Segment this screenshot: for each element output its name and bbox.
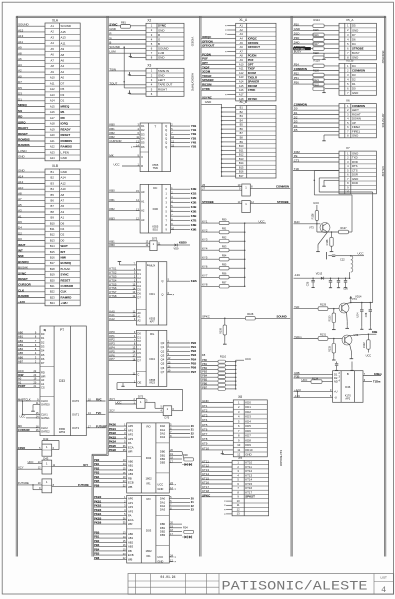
- svg-text:UCC: UCC: [245, 357, 251, 361]
- svg-text:PKB4: PKB4: [94, 512, 102, 516]
- svg-text:AP2: AP2: [128, 433, 134, 437]
- svg-text:AP0: AP0: [128, 424, 134, 428]
- svg-text:RxD: RxD: [294, 220, 299, 224]
- svg-text:ROMDIS: ROMDIS: [18, 138, 30, 142]
- svg-text:20: 20: [191, 496, 194, 500]
- svg-text:AB3: AB3: [128, 545, 134, 549]
- svg-text:GND: GND: [352, 28, 358, 32]
- svg-text:Q5: Q5: [161, 362, 165, 366]
- svg-text:UCC: UCC: [313, 201, 319, 205]
- svg-text:WB: WB: [128, 557, 133, 561]
- svg-text:A14: A14: [50, 99, 55, 103]
- svg-text:XCY: XCY: [109, 397, 115, 401]
- svg-text:NMI: NMI: [61, 256, 67, 260]
- svg-text:A0: A0: [141, 190, 145, 194]
- svg-text:+12U: +12U: [18, 300, 25, 304]
- X5_A ground: [323, 54, 325, 57]
- column separator 3: [199, 16, 201, 556]
- gate D75.1 input wires: [109, 242, 150, 244]
- svg-text:CTRK: CTRK: [248, 88, 256, 92]
- svg-text:R130: R130: [328, 315, 331, 321]
- svg-text:PB6: PB6: [94, 483, 100, 487]
- svg-text:A13: A13: [61, 36, 67, 40]
- svg-text:A17: A17: [239, 93, 244, 97]
- svg-text:A1: A1: [137, 315, 141, 319]
- svg-text:C22: C22: [340, 258, 345, 262]
- svg-text:KT8: KT8: [202, 437, 208, 441]
- svg-text:B9: B9: [51, 216, 55, 220]
- svg-text:R93: R93: [222, 246, 227, 249]
- svg-text:B17: B17: [239, 174, 244, 178]
- svg-text:RAMDIS: RAMDIS: [18, 143, 30, 147]
- svg-text:04.01.94: 04.01.94: [160, 575, 175, 579]
- capacitor C27: [361, 303, 363, 310]
- svg-text:VIDEO: VIDEO: [191, 37, 195, 47]
- svg-text:A4: A4: [18, 63, 22, 67]
- svg-text:ID10: ID10: [153, 227, 159, 231]
- svg-text:RB: RB: [128, 476, 132, 480]
- svg-text:FUTURE: FUTURE: [96, 424, 107, 428]
- svg-text:A6: A6: [51, 53, 55, 57]
- svg-text:Q1: Q1: [161, 345, 165, 349]
- wire XCY to gate D43: [18, 468, 43, 470]
- svg-text:KT3: KT3: [202, 413, 208, 417]
- svg-text:Q0: Q0: [161, 341, 165, 345]
- svg-text:SPKST: SPKST: [245, 495, 255, 499]
- svg-text:K1B: K1B: [191, 192, 197, 196]
- X2 GND stub: [130, 57, 146, 59]
- resistor R134 on UCC wire: [301, 381, 333, 383]
- gate D45.2: [242, 201, 251, 213]
- svg-text:A17: A17: [50, 116, 55, 120]
- svg-text:R117: R117: [313, 43, 319, 46]
- svg-text:A1: A1: [141, 199, 145, 203]
- svg-text:CLK0: CLK0: [41, 399, 48, 403]
- svg-text:1802: 1802: [145, 476, 152, 480]
- svg-text:XLB: XLB: [52, 164, 58, 168]
- wire MAPTCLK to CLK0: [18, 400, 34, 402]
- svg-text:B17: B17: [50, 261, 55, 265]
- svg-text:B2: B2: [51, 176, 55, 180]
- diodes VD D02: [184, 463, 187, 466]
- svg-text:UCC: UCC: [157, 555, 163, 559]
- svg-text:-U: -U: [334, 395, 337, 399]
- svg-text:LEFT: LEFT: [158, 78, 165, 82]
- svg-text:XL_A: XL_A: [239, 18, 248, 22]
- svg-text:R81: R81: [121, 21, 126, 25]
- svg-text:GND: GND: [157, 487, 163, 491]
- svg-text:B: B: [347, 372, 349, 376]
- svg-text:UCC: UCC: [358, 252, 364, 256]
- svg-text:PB4: PB4: [94, 475, 100, 479]
- svg-text:SOUND: SOUND: [18, 23, 29, 27]
- svg-text:INT: INT: [18, 249, 23, 253]
- svg-text:R127: R127: [340, 226, 347, 230]
- svg-text:AP2: AP2: [128, 505, 134, 509]
- svg-text:K3B: K3B: [191, 201, 197, 205]
- svg-text:ECA: ECA: [128, 445, 134, 449]
- X3 GND stubs: [129, 75, 146, 77]
- svg-text:D7: D7: [137, 296, 141, 300]
- svg-text:GND: GND: [294, 27, 300, 31]
- svg-text:A14: A14: [239, 80, 244, 84]
- svg-text:GND: GND: [157, 560, 163, 564]
- svg-text:R04: R04: [183, 526, 188, 530]
- svg-text:GND: GND: [61, 156, 67, 160]
- svg-text:Q: Q: [165, 132, 167, 136]
- svg-text:K8B: K8B: [191, 223, 197, 227]
- svg-text:R134: R134: [312, 376, 319, 380]
- svg-text:KT10: KT10: [202, 447, 209, 451]
- decoder IC D00 K555ID10: [140, 184, 170, 233]
- gate D44: [42, 479, 52, 493]
- svg-text:T: T: [154, 125, 156, 129]
- svg-text:IOW: IOW: [18, 373, 24, 377]
- svg-text:22: 22: [191, 504, 194, 508]
- svg-text:P54: P54: [294, 62, 299, 66]
- svg-text:D4D: D4D: [294, 41, 300, 45]
- svg-text:SYNC: SYNC: [109, 22, 118, 26]
- svg-text:P51: P51: [294, 76, 299, 80]
- svg-text:Q: Q: [161, 293, 163, 297]
- svg-text:KTS8: KTS8: [109, 294, 116, 298]
- svg-text:B11: B11: [50, 227, 55, 231]
- svg-text:TxD: TxD: [294, 305, 299, 309]
- svg-text:K0B: K0B: [191, 187, 197, 191]
- svg-text:B16: B16: [50, 256, 55, 260]
- svg-text:X2: X2: [147, 19, 151, 23]
- svg-text:PB3: PB3: [94, 543, 100, 547]
- svg-text:D3: D3: [41, 344, 45, 348]
- svg-text:ECA: ECA: [128, 518, 134, 522]
- svg-text:LUM: LUM: [158, 51, 165, 55]
- svg-text:B18: B18: [50, 267, 55, 271]
- svg-text:KD0: KD0: [245, 400, 251, 404]
- svg-text:4: 4: [381, 585, 386, 595]
- capacitor C28: [369, 303, 371, 310]
- transistor stage VT5 TxDm: [294, 338, 319, 340]
- svg-text:P52: P52: [294, 72, 299, 76]
- svg-text:PKB1: PKB1: [109, 427, 117, 431]
- svg-text:KD5: KD5: [245, 424, 251, 428]
- svg-text:23: 23: [191, 435, 194, 439]
- svg-text:WR: WR: [41, 374, 46, 378]
- svg-text:DC: DC: [153, 186, 157, 190]
- svg-text:AB2: AB2: [128, 468, 134, 472]
- svg-text:D1: D1: [61, 99, 65, 103]
- svg-text:GND: GND: [158, 73, 164, 77]
- svg-text:KB0: KB0: [109, 189, 115, 193]
- svg-text:AP1: AP1: [128, 428, 134, 432]
- svg-text:JOYSTICK: JOYSTICK: [381, 113, 385, 127]
- svg-text:D1D: D1D: [294, 31, 300, 35]
- svg-text:B4: B4: [51, 187, 55, 191]
- svg-text:R90: R90: [222, 219, 227, 222]
- svg-text:PB3: PB3: [94, 471, 100, 475]
- svg-text:26: 26: [202, 183, 205, 187]
- column separator right: [384, 16, 386, 556]
- gate D45.1 input wires: [202, 186, 242, 188]
- svg-text:B3: B3: [51, 181, 55, 185]
- svg-text:WB: WB: [128, 485, 133, 489]
- svg-text:X3: X3: [147, 64, 151, 68]
- svg-text:KBS: KBS: [191, 279, 197, 283]
- svg-text:A23: A23: [50, 150, 55, 154]
- svg-text:D0: D0: [61, 238, 65, 242]
- svg-text:C25: C25: [306, 281, 309, 286]
- svg-text:PB5: PB5: [202, 378, 208, 382]
- svg-text:A3: A3: [61, 210, 65, 214]
- svg-text:AB0: AB0: [18, 331, 24, 335]
- X2 sync wire break for resistor: [121, 25, 131, 28]
- svg-text:27: 27: [202, 187, 205, 191]
- svg-text:D2: D2: [18, 231, 22, 235]
- svg-text:RD: RD: [18, 115, 22, 119]
- svg-text:PB5: PB5: [94, 552, 100, 556]
- svg-text:VD14: VD14: [355, 295, 362, 299]
- svg-text:BUSAK: BUSAK: [61, 267, 71, 271]
- svg-text:KY4: KY4: [202, 247, 208, 251]
- svg-text:NMI: NMI: [18, 254, 24, 258]
- svg-text:D1: D1: [41, 336, 45, 340]
- svg-text:A3: A3: [18, 209, 22, 213]
- svg-text:A9: A9: [18, 46, 22, 50]
- svg-text:AB0: AB0: [128, 459, 134, 463]
- svg-text:Q: Q: [165, 145, 167, 149]
- svg-text:PKB0: PKB0: [109, 423, 117, 427]
- svg-text:AP3: AP3: [128, 509, 134, 513]
- svg-text:AB6: AB6: [18, 355, 24, 359]
- svg-text:B19: B19: [50, 273, 55, 277]
- svg-text:D4: D4: [41, 349, 45, 353]
- svg-text:P3B: P3B: [294, 375, 299, 379]
- svg-text:KT1: KT1: [202, 404, 208, 408]
- svg-text:D4: D4: [61, 227, 65, 231]
- svg-text:A8: A8: [61, 193, 65, 197]
- svg-text:AB3: AB3: [18, 343, 24, 347]
- svg-text:A0: A0: [18, 377, 22, 381]
- svg-text:PB6: PB6: [94, 556, 100, 560]
- svg-text:SYNC: SYNC: [61, 273, 70, 277]
- svg-text:R114: R114: [314, 18, 321, 22]
- svg-text:B13: B13: [50, 238, 55, 242]
- svg-text:CURSOR: CURSOR: [109, 139, 121, 143]
- svg-text:X9: X9: [238, 456, 242, 460]
- svg-text:A14: A14: [61, 176, 67, 180]
- svg-text:READY: READY: [61, 127, 71, 131]
- svg-text:PKB3: PKB3: [109, 435, 117, 439]
- svg-text:IORQ: IORQ: [18, 120, 26, 124]
- diodes VD D03: [184, 536, 187, 539]
- svg-text:A2: A2: [61, 70, 65, 74]
- svg-text:A8: A8: [51, 64, 55, 68]
- svg-text:FUTURE: FUTURE: [18, 481, 29, 485]
- svg-text:A2: A2: [51, 30, 55, 34]
- svg-text:AB2: AB2: [18, 339, 24, 343]
- svg-text:R128: R128: [326, 239, 329, 245]
- svg-text:PB2: PB2: [202, 366, 208, 370]
- svg-text:PA: PA: [128, 441, 132, 445]
- svg-text:UCC: UCC: [28, 460, 34, 464]
- svg-text:A7: A7: [51, 58, 55, 62]
- list box: [373, 574, 375, 595]
- svg-text:Q: Q: [161, 279, 163, 283]
- transistor VT3: [294, 223, 321, 225]
- svg-text:AP1: AP1: [128, 501, 134, 505]
- svg-text:12: 12: [237, 508, 240, 512]
- svg-text:D2: D2: [137, 339, 141, 343]
- svg-text:×: ×: [225, 32, 227, 36]
- svg-text:R00: R00: [183, 453, 188, 457]
- svg-text:Q7: Q7: [161, 370, 165, 374]
- svg-text:B10: B10: [50, 221, 55, 225]
- svg-text:SOUND: SOUND: [109, 45, 120, 49]
- svg-text:PB1: PB1: [202, 362, 208, 366]
- svg-text:KD1: KD1: [245, 405, 251, 409]
- svg-text:KA2: KA2: [109, 317, 115, 321]
- svg-text:BUSAK: BUSAK: [18, 266, 28, 270]
- svg-text:R122: R122: [313, 83, 319, 86]
- svg-text:A12: A12: [18, 180, 24, 184]
- svg-text:DA0: DA0: [160, 497, 166, 501]
- svg-text:MK: MK: [18, 424, 22, 428]
- svg-text:KY5: KY5: [202, 256, 208, 260]
- svg-text:FUTURE: FUTURE: [78, 483, 89, 487]
- svg-text:B14: B14: [50, 244, 55, 248]
- svg-text:A4: A4: [51, 41, 55, 45]
- svg-text:KT7: KT7: [202, 432, 208, 436]
- svg-text:COMMON: COMMON: [294, 67, 307, 71]
- X6 ground: [324, 134, 339, 136]
- svg-text:D01: D01: [150, 292, 156, 296]
- svg-text:RAMRD: RAMRD: [61, 295, 72, 299]
- svg-text:AB7: AB7: [18, 360, 24, 364]
- VT3 collector to R127: [316, 224, 318, 232]
- svg-text:ECB: ECB: [128, 553, 134, 557]
- svg-text:A15: A15: [61, 30, 67, 34]
- svg-text:B13: B13: [239, 157, 244, 161]
- svg-text:+U: +U: [334, 390, 338, 394]
- svg-text:D0: D0: [18, 237, 22, 241]
- ground on OE wire: [122, 382, 124, 385]
- svg-text:PKB2: PKB2: [109, 431, 117, 435]
- svg-text:AB2: AB2: [128, 540, 134, 544]
- svg-text:Q: Q: [165, 124, 167, 128]
- svg-text:A8: A8: [18, 192, 22, 196]
- svg-text:XLA: XLA: [52, 18, 59, 22]
- svg-text:Q: Q: [165, 141, 167, 145]
- svg-text:×: ×: [174, 555, 176, 559]
- svg-text:PB7: PB7: [191, 370, 197, 374]
- svg-text:Y5B: Y5B: [191, 145, 196, 149]
- svg-text:Q4: Q4: [161, 358, 165, 362]
- svg-text:PC/DN: PC/DN: [248, 54, 257, 58]
- svg-text:KY6: KY6: [202, 265, 208, 269]
- svg-text:D4: D4: [141, 137, 145, 141]
- svg-text:INT: INT: [61, 250, 66, 254]
- svg-text:B16: B16: [239, 170, 244, 174]
- svg-text:D6: D6: [18, 220, 22, 224]
- svg-text:IR1: IR1: [147, 481, 152, 485]
- svg-text:A8: A8: [61, 53, 65, 57]
- svg-text:D7: D7: [137, 359, 141, 363]
- diode VD9: [157, 244, 174, 246]
- svg-text:D8: D8: [202, 353, 206, 357]
- keyboard pull-up resistor ladder R90-R97: [202, 222, 220, 224]
- wire 3CY output: [52, 466, 92, 468]
- svg-text:B: B: [109, 41, 111, 45]
- column separator 4: [290, 16, 292, 556]
- resistor R00 network: [184, 458, 194, 461]
- svg-text:D2: D2: [61, 233, 65, 237]
- svg-text:K2B: K2B: [191, 196, 197, 200]
- svg-text:C28: C28: [365, 312, 368, 317]
- svg-text:Q3: Q3: [161, 353, 165, 357]
- svg-text:C26: C26: [343, 288, 348, 291]
- svg-text:GATE1: GATE1: [41, 416, 50, 420]
- svg-text:A8: A8: [18, 51, 22, 55]
- svg-text:GND: GND: [158, 28, 164, 32]
- svg-text:RESET: RESET: [61, 133, 71, 137]
- svg-text:CLK1: CLK1: [41, 412, 48, 416]
- svg-text:CLK: CLK: [18, 288, 25, 292]
- svg-text:D5: D5: [294, 128, 298, 132]
- svg-text:RD: RD: [41, 371, 45, 375]
- svg-text:PB0: PB0: [202, 358, 208, 362]
- svg-text:KT5: KT5: [202, 423, 208, 427]
- svg-text:D5: D5: [41, 353, 45, 357]
- svg-text:KT9: KT9: [202, 442, 208, 446]
- wire GATE0 stub: [33, 404, 36, 406]
- svg-text:AB0: AB0: [128, 532, 134, 536]
- svg-text:OUT1: OUT1: [72, 412, 80, 416]
- svg-text:×: ×: [174, 482, 176, 486]
- svg-text:IR1: IR1: [147, 554, 152, 558]
- svg-text:DB0: DB0: [160, 522, 166, 526]
- svg-text:KT4: KT4: [202, 418, 208, 422]
- svg-text:PKB0: PKB0: [94, 495, 102, 499]
- svg-text:PB6: PB6: [202, 381, 208, 385]
- svg-text:×: ×: [173, 293, 175, 297]
- svg-text:RIGHT: RIGHT: [158, 87, 167, 91]
- resistor R132: [367, 334, 369, 340]
- svg-text:A13: A13: [50, 93, 55, 97]
- svg-text:OFF/OUT: OFF/OUT: [248, 45, 261, 49]
- svg-text:R: R: [141, 164, 143, 168]
- capacitor C31: [338, 277, 340, 279]
- svg-text:B23: B23: [50, 295, 55, 299]
- svg-text:A0: A0: [61, 76, 65, 80]
- svg-text:×: ×: [225, 49, 227, 53]
- svg-text:KB2: KB2: [109, 207, 115, 211]
- svg-text:A5: A5: [51, 47, 55, 51]
- svg-text:PB1: PB1: [94, 462, 100, 466]
- svg-text:A5: A5: [18, 203, 22, 207]
- svg-text:KP7: KP7: [150, 319, 155, 323]
- capacitor C29 above D46: [336, 362, 338, 364]
- svg-text:STROBE: STROBE: [352, 47, 364, 51]
- svg-text:GND: GND: [205, 100, 211, 104]
- svg-text:A15: A15: [239, 84, 244, 88]
- svg-text:10: 10: [237, 499, 240, 503]
- svg-text:A0: A0: [41, 378, 45, 382]
- svg-text:A19: A19: [50, 127, 55, 131]
- svg-text:R118: R118: [313, 52, 319, 55]
- svg-text:R132: R132: [363, 342, 366, 348]
- svg-text:K7B: K7B: [191, 219, 197, 223]
- svg-text:×: ×: [224, 512, 226, 516]
- svg-text:GND: GND: [245, 453, 251, 457]
